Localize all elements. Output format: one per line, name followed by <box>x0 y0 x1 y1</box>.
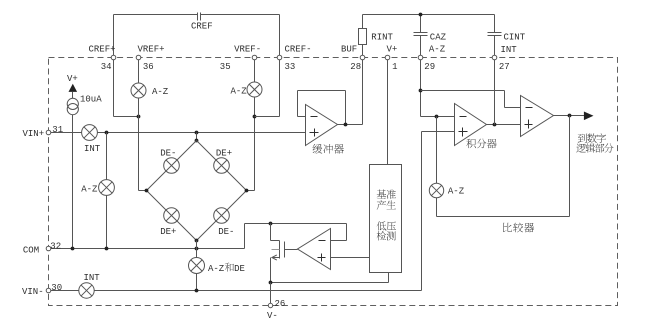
pin 34 terminal <box>111 55 116 60</box>
wire AZ to integrator - input <box>421 116 455 118</box>
pin 36 terminal <box>136 55 141 60</box>
wire current source to COM <box>72 115 74 249</box>
junctions on COM line <box>71 247 75 251</box>
pin 32 terminal <box>46 246 51 251</box>
current source arrow <box>69 84 78 92</box>
svg-text:V+: V+ <box>387 45 398 55</box>
op-amp U3 comparator triangle <box>521 96 554 137</box>
junction comparator output/feedback <box>568 114 572 118</box>
svg-text:VIN-: VIN- <box>22 287 44 297</box>
op-amp U4 low-voltage comparator triangle (mirrored) <box>298 229 331 270</box>
switch DE- (top-left) <box>164 158 180 174</box>
switch A-Z (VREF- branch) <box>247 82 262 97</box>
bridge bottom junction <box>195 239 199 243</box>
wire pin36 vertical (VREF+ branch) <box>138 58 140 191</box>
wire bridge bottom to COM <box>196 241 198 249</box>
switch A-Z (input) <box>99 180 115 196</box>
svg-text:32: 32 <box>50 242 61 252</box>
svg-text:31: 31 <box>52 125 63 135</box>
svg-text:VIN+: VIN+ <box>23 129 45 139</box>
capacitor CREF top rail wires <box>114 14 198 16</box>
op-amp U2 integrator triangle <box>455 104 487 146</box>
svg-text:35: 35 <box>220 62 231 72</box>
switch A-Z and DE <box>196 249 198 291</box>
chip boundary (dashed box) <box>49 58 618 306</box>
bridge edge DE+ top-right wire <box>197 141 247 191</box>
wire pin34 to bridge-left net <box>113 58 115 117</box>
wire comparator output <box>554 115 585 117</box>
wire CREF+ riser <box>113 15 115 58</box>
svg-text:A-Z: A-Z <box>208 264 225 274</box>
transistor Q1 gate lead <box>285 249 298 251</box>
svg-text:27: 27 <box>499 62 510 72</box>
wire integrator output <box>487 124 521 126</box>
svg-text:A-Z: A-Z <box>81 184 98 194</box>
wire to pin 26 <box>270 283 272 304</box>
svg-text:26: 26 <box>275 299 286 309</box>
svg-text:CINT: CINT <box>504 33 526 43</box>
switch DE- (bottom-right) <box>214 208 230 224</box>
wire COM line <box>49 248 245 250</box>
wire low comparator + to reference block <box>331 257 370 259</box>
top-right rail wire (RINT/CAZ/CINT common node) <box>363 14 495 16</box>
svg-text:1: 1 <box>392 62 397 72</box>
wire reference block bottom to V- node <box>388 273 390 283</box>
svg-text:DE+: DE+ <box>216 148 232 158</box>
junction VIN- / A-Z-DE switch <box>195 289 199 293</box>
pin 33 terminal <box>277 55 282 60</box>
label 比较器 <box>503 223 534 233</box>
transistor Q1 source lead with arrow <box>273 257 280 259</box>
wire buffer output <box>338 124 363 126</box>
switch A-Z (comparator feedback) <box>429 183 443 197</box>
wire integrator + input stub <box>422 131 455 133</box>
junction integrator output / pin27 <box>493 123 497 127</box>
svg-text:CREF+: CREF+ <box>89 45 116 55</box>
transistor Q1 drain lead <box>270 224 272 241</box>
svg-text:A-Z: A-Z <box>152 87 169 97</box>
svg-text:DE-: DE- <box>160 148 176 158</box>
junction node VREF- net <box>253 115 257 119</box>
junction VIN+/A-Z branch <box>105 131 109 135</box>
svg-text:VREF+: VREF+ <box>138 45 165 55</box>
wire transistor node to low comparator - <box>271 223 347 225</box>
switch DE+ (top-right) <box>214 158 230 174</box>
svg-text:33: 33 <box>285 62 296 72</box>
wire VIN+ line <box>49 132 306 134</box>
switch INT (VIN+) <box>82 125 98 141</box>
pin 31 terminal <box>46 130 51 135</box>
bridge edge DE- bottom-right wire <box>197 191 247 241</box>
capacitor CREF plates <box>197 13 199 21</box>
svg-text:A-Z: A-Z <box>231 86 248 96</box>
transistor Q1 gate bar <box>284 242 286 258</box>
bridge edge DE- top-left wire <box>147 141 197 191</box>
svg-text:28: 28 <box>350 62 361 72</box>
pin 30 terminal <box>46 288 51 293</box>
svg-text:RINT: RINT <box>371 33 393 43</box>
svg-text:DE: DE <box>234 264 245 274</box>
wire pin33 to bridge-right net <box>279 58 281 117</box>
junction buffer output/feedback <box>344 123 348 127</box>
svg-text:VREF-: VREF- <box>234 45 261 55</box>
svg-text:CREF: CREF <box>191 22 213 32</box>
svg-text:COM: COM <box>23 245 39 255</box>
pin 27 terminal <box>492 55 497 60</box>
transistor Q1 bulk lead <box>272 249 280 251</box>
capacitor CAZ <box>420 15 422 33</box>
svg-text:INT: INT <box>84 144 101 154</box>
svg-text:INT: INT <box>501 45 518 55</box>
wire COM to transistor node <box>244 224 246 249</box>
svg-text:30: 30 <box>51 283 62 293</box>
svg-text:CAZ: CAZ <box>430 32 447 42</box>
bridge top stub <box>196 133 198 141</box>
bridge edge DE+ bottom-left wire <box>147 191 197 241</box>
switch A-Z (VREF+ branch) <box>131 83 146 98</box>
label 逻辑部分 <box>576 143 613 152</box>
junction node VREF+ net <box>137 115 141 119</box>
svg-text:CREF-: CREF- <box>285 45 312 55</box>
junction rail-CAZ <box>419 13 423 17</box>
pin 1 terminal <box>385 55 390 60</box>
buffer op-amp U1 feedback wires <box>297 91 299 117</box>
switch DE+ (bottom-left) <box>164 208 180 224</box>
wire VIN- up to integrator + <box>421 132 423 291</box>
bridge left vertex jog wire <box>139 190 147 192</box>
capacitor CINT <box>494 15 496 33</box>
label 积分器 <box>466 139 496 149</box>
pin 26 terminal <box>268 303 272 307</box>
junction VIN+/bridge top <box>195 131 199 135</box>
label 低压检测 <box>377 221 396 230</box>
pin 29 terminal <box>418 55 423 60</box>
reference/low-voltage block <box>370 165 402 273</box>
svg-text:DE+: DE+ <box>160 227 176 237</box>
wire VIN- line <box>49 290 422 292</box>
wire V+ pin1 to reference block <box>387 58 389 165</box>
junction V- node <box>269 281 273 285</box>
switch INT (VIN-) <box>79 283 94 298</box>
svg-text:V+: V+ <box>67 74 78 84</box>
wire buffer output to pin 28 <box>362 58 364 125</box>
resistor RINT <box>362 15 364 29</box>
wire CREF- riser <box>279 15 281 58</box>
wire pin 27 (INT) vertical <box>494 58 496 125</box>
label 到数字 <box>578 133 606 142</box>
junction integrator - / A-Z switch <box>435 115 439 119</box>
svg-text:10uA: 10uA <box>80 95 102 105</box>
svg-text:34: 34 <box>101 62 112 72</box>
svg-text:A-Z: A-Z <box>448 187 465 197</box>
wire AZ pin29 net <box>420 58 422 117</box>
svg-text:V-: V- <box>267 311 278 321</box>
wire A-Z branch vertical (VIN+ to COM) <box>106 133 108 249</box>
pin 28 terminal <box>360 55 365 60</box>
pin 35 terminal <box>252 55 257 60</box>
label 基准产生 <box>377 189 396 198</box>
comparator feedback wires <box>569 116 571 217</box>
output arrow to digital logic <box>584 112 594 121</box>
transistor Q1 channel bar <box>279 241 281 259</box>
svg-text:BUF: BUF <box>341 45 357 55</box>
svg-text:INT: INT <box>84 273 101 283</box>
svg-text:A-Z: A-Z <box>429 44 446 54</box>
junction transistor drain node <box>269 222 273 226</box>
wire pin35 vertical (VREF- branch) <box>254 58 256 191</box>
wire buffer - input stub <box>298 116 306 118</box>
op-amp U1 buffer triangle <box>306 105 338 146</box>
svg-text:DE-: DE- <box>218 227 234 237</box>
svg-text:36: 36 <box>143 62 154 72</box>
label 缓冲器 <box>313 144 344 154</box>
current source circles <box>72 92 74 99</box>
bridge right vertex jog wire <box>247 190 255 192</box>
svg-text:29: 29 <box>424 62 435 72</box>
